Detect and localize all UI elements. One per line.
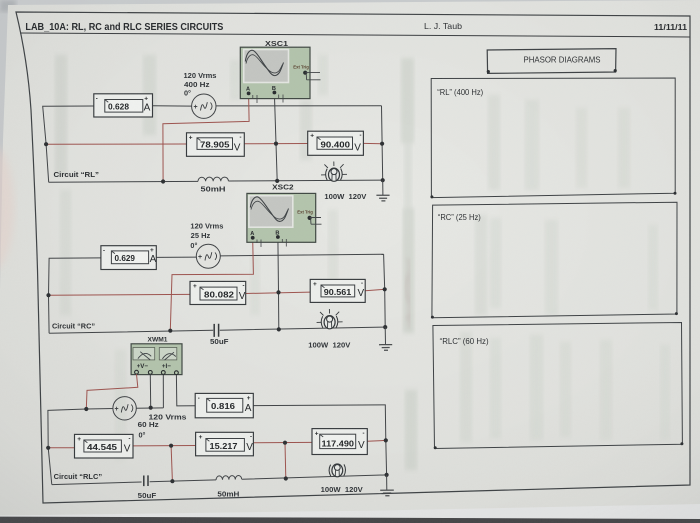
date text <box>654 22 687 32</box>
wire RLC red vertical at 171 <box>171 446 172 482</box>
wire RC scope B drop <box>277 239 280 330</box>
ground RC <box>379 327 392 350</box>
wire RL node to voltmeter 78.905 left <box>46 143 186 145</box>
junction node RC bottom row / scope B <box>277 327 281 331</box>
lamp 100W 120V RLC (unlit) <box>329 464 345 477</box>
inductor 50mH RL <box>198 177 228 181</box>
voltmeter 90.400 V <box>308 131 364 155</box>
junction node RLC right vertical / bottom row <box>385 473 389 477</box>
ammeter 0.628 A <box>94 94 153 117</box>
finger smudge at left edge <box>0 146 14 270</box>
voltmeter 117.490 V <box>312 429 367 455</box>
wire RLC left vertical to voltmeter 44.545 left <box>48 447 74 449</box>
wire XWM1 I+ <box>162 375 164 408</box>
title text <box>25 22 223 33</box>
lamp 100W 120V RC (lit) <box>317 309 343 329</box>
junction node RC right vertical / voltmeter row <box>383 287 387 291</box>
wire RLC source left + left vertical <box>48 409 113 485</box>
junction node RC voltmeter row / scope B <box>276 290 280 294</box>
wire RC source to right corner <box>220 254 383 256</box>
wire XWM1 V+ red <box>86 374 138 409</box>
wire RC ammeter to source <box>156 256 197 258</box>
junction node RLC bottom row / capacitor-inductor <box>170 479 174 483</box>
circuit RC label <box>52 321 95 330</box>
wattmeter XWM1 <box>131 336 182 374</box>
junction node RL voltmeter row / scope B <box>274 142 278 146</box>
circuit RL label <box>54 170 100 179</box>
junction node RL right vertical / bottom row <box>381 178 385 182</box>
wire RL voltmeter 78.905 right to voltmeter 90.400 left <box>244 143 307 145</box>
AC source V2 120Vrms 25Hz <box>190 222 223 269</box>
oscilloscope XSC2 <box>247 183 322 247</box>
junction node RLC meter row / capacitor-inductor tap <box>169 444 173 448</box>
wire RC right vertical <box>384 254 386 327</box>
wire RC bottom row <box>49 327 385 333</box>
wire RC scope A red path <box>170 239 253 330</box>
circuit RLC label <box>54 472 103 481</box>
wire RC left <box>49 258 101 333</box>
voltmeter 78.905 V <box>187 133 245 157</box>
wire RLC source right <box>136 407 163 409</box>
junction node RLC right vertical / meter row <box>384 438 388 442</box>
phasor box RL (400 Hz) <box>430 78 676 198</box>
junction node RLC bottom row / inductor-lamp <box>284 476 288 480</box>
wire RL scope A red path <box>163 95 249 182</box>
ground RLC <box>380 475 394 496</box>
wire RC node to voltmeter 80.082 left <box>49 293 191 296</box>
junction node RLC left vertical / meter row <box>46 446 50 450</box>
capacitor 50uF RC <box>214 324 218 337</box>
wire RLC red vertical at 285 <box>284 443 287 479</box>
AC source V1 120Vrms 400Hz <box>184 71 217 119</box>
voltmeter 44.545 V <box>75 434 134 458</box>
wire RL scope B drop <box>274 94 277 181</box>
junction node RLC source row / wattmeter V+ <box>84 407 88 411</box>
phasor diagrams header box <box>487 49 617 74</box>
wire RLC voltmeter 117.490 right to right vertical <box>367 439 386 442</box>
junction node RC bottom row / scope A tap <box>168 329 172 333</box>
title separator line <box>20 33 690 37</box>
ground RL <box>376 180 389 201</box>
wire RLC bottom row <box>52 475 387 485</box>
wire RL voltmeter 90.400 right to right vertical <box>363 142 382 144</box>
AC source V3 120Vrms 60Hz <box>113 397 187 440</box>
junction node RC right vertical / bottom row <box>383 325 387 329</box>
ammeter 0.816 A <box>195 393 253 417</box>
junction node RLC source row / wattmeter V- <box>149 406 153 410</box>
junction node RL left vertical / voltmeter row <box>44 142 48 146</box>
lamp 100W 120V RL (lit) <box>321 162 347 182</box>
junction node RL right vertical / voltmeter row <box>380 142 384 146</box>
wire RC voltmeter 90.561 right to right vertical <box>365 289 385 290</box>
wire RLC ammeter right + right vertical <box>253 405 386 475</box>
wire RLC voltmeter 44.545 right to voltmeter 15.217 left <box>133 445 196 447</box>
ammeter 0.629 A <box>101 246 157 270</box>
bleed-through smudge columns <box>55 55 670 470</box>
wire RL bottom row <box>49 180 383 182</box>
junction node RLC meter row / inductor-lamp tap <box>283 441 287 445</box>
phasor box RLC (60 Hz) <box>433 323 684 450</box>
junction node RL bottom row / scope B <box>275 179 279 183</box>
wire RLC voltmeter 15.217 right to voltmeter 117.490 left <box>253 441 312 443</box>
inductor 50mH RLC <box>216 475 242 479</box>
junction node RC left vertical / voltmeter row <box>46 293 50 297</box>
wire XWM1 I- to ammeter <box>176 375 195 406</box>
oscilloscope XSC1 <box>240 39 320 103</box>
junction node RL bottom row / scope A tap <box>161 179 165 183</box>
wire RC voltmeter 80.082 right to voltmeter 90.561 left <box>246 292 311 293</box>
wire RL ammeter to source <box>153 105 192 107</box>
wire RL source to right corner <box>216 105 381 107</box>
wire RL right vertical <box>382 106 383 180</box>
voltmeter 90.561 V <box>310 279 365 302</box>
author text <box>424 21 462 31</box>
bottom dark table band <box>0 517 700 523</box>
voltmeter 80.082 V <box>190 281 246 304</box>
phasor box RC (25 Hz) <box>431 202 678 318</box>
table highlight strip <box>0 504 700 519</box>
capacitor 50uF RLC <box>144 475 148 486</box>
wire XWM1 V- <box>149 374 151 407</box>
wire RL left (ammeter to left vertical down to bottom row) <box>43 106 94 182</box>
voltmeter 15.217 V <box>196 432 254 456</box>
